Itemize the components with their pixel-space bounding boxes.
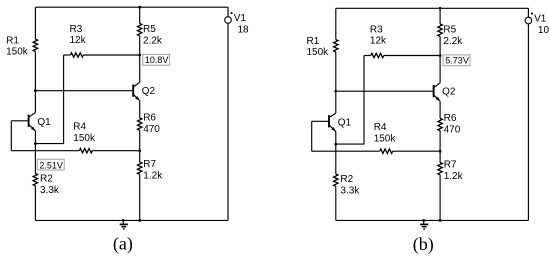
svg-text:Q1: Q1 — [37, 117, 51, 128]
wire: left rail upper (circuit a) — [34, 7, 36, 39]
resistor R2 3.3k (circuit b) — [334, 174, 361, 197]
svg-text:R7: R7 — [143, 159, 156, 170]
svg-text:Q2: Q2 — [142, 86, 156, 97]
node: ground junction (circuit b) — [422, 219, 425, 222]
resistor R4 150k (circuit a) — [11, 122, 139, 153]
svg-text:1.2k: 1.2k — [444, 171, 464, 182]
wire: emitter junction to R3 riser (circuit a) — [35, 55, 63, 144]
wire: top rail (circuit b) — [336, 7, 529, 9]
voltage source V1 (circuit a) — [225, 12, 249, 36]
svg-text:R5: R5 — [143, 24, 156, 35]
wire: R7 to bottom rail (circuit b) — [439, 175, 441, 221]
wire: base branch down to R4 (circuit b) — [311, 121, 313, 151]
svg-text:(a): (a) — [113, 234, 133, 255]
resistor R1 150k (circuit a) — [6, 35, 37, 57]
resistor R5 2.2k (circuit a) — [138, 24, 163, 47]
svg-text:Q1: Q1 — [338, 118, 352, 129]
wire: V1 positive lead (circuit b) — [527, 8, 529, 17]
wire: emitter junction to R2 (circuit b) — [335, 144, 337, 174]
ground symbol (circuit a) — [120, 220, 128, 229]
wire: V1 positive lead (circuit a) — [227, 7, 229, 17]
svg-text:R6: R6 — [143, 112, 156, 123]
wire: bottom rail (circuit b) — [336, 219, 529, 221]
node: R3 / R5 / Q2 collector net junction (circuit b) — [439, 54, 442, 57]
svg-text:2.2k: 2.2k — [143, 36, 163, 47]
wire: R7 to bottom rail (circuit a) — [139, 174, 141, 220]
svg-text:Q2: Q2 — [442, 86, 456, 97]
svg-text:R4: R4 — [374, 122, 387, 133]
wire: Q1 emitter down (circuit b) — [335, 131, 337, 144]
resistor R7 1.2k (circuit a) — [138, 159, 164, 181]
svg-text:150k: 150k — [374, 134, 397, 145]
node: ground junction (circuit a) — [122, 219, 125, 222]
wire: middle rail upper (circuit b) — [439, 8, 441, 24]
transistor Q1 (circuit a) — [29, 113, 52, 131]
svg-text:R4: R4 — [73, 122, 86, 133]
svg-text:V1: V1 — [534, 14, 547, 25]
resistor R3 12k (circuit b) — [364, 24, 440, 57]
wire: node to R7 (circuit a) — [139, 151, 141, 162]
svg-text:R5: R5 — [443, 25, 456, 36]
node: middle rail / bottom rail junction (circuit a) — [138, 219, 141, 222]
wire: R5 to Q2 collector (circuit a) — [139, 36, 141, 83]
svg-text:R2: R2 — [40, 174, 53, 185]
svg-text:R1: R1 — [307, 36, 320, 47]
wire: V1 negative lead / right side (circuit a) — [227, 23, 229, 220]
resistor R4 150k (circuit b) — [312, 122, 440, 153]
transistor Q1 (circuit b) — [329, 113, 352, 131]
svg-text:5.73V: 5.73V — [445, 55, 469, 65]
wire: middle rail upper (circuit a) — [139, 7, 141, 23]
svg-text:2.2k: 2.2k — [443, 36, 463, 47]
wire: node to R7 (circuit b) — [439, 151, 441, 162]
svg-text:R2: R2 — [340, 174, 353, 185]
svg-text:3.3k: 3.3k — [40, 185, 60, 196]
svg-text:12k: 12k — [70, 35, 87, 46]
wire: R1 to Q1 collector (circuit a) — [34, 51, 36, 112]
node: Q1 collector / Q2 base junction (circuit b) — [334, 90, 337, 93]
node: Q1 collector / Q2 base junction (circuit a) — [34, 89, 37, 92]
probe label 5.73V (circuit b) — [443, 55, 470, 66]
transistor Q2 (circuit b) — [434, 83, 456, 101]
node: R3 / R5 / Q2 collector net junction (circuit a) — [138, 54, 141, 57]
transistor Q2 (circuit a) — [133, 82, 155, 100]
wire: emitter junction to R3 riser (circuit b) — [336, 56, 364, 145]
wire: Q2 emitter to R6 (circuit a) — [139, 101, 141, 118]
node: R4 / R6 / R7 junction (circuit b) — [439, 150, 442, 153]
svg-text:3.3k: 3.3k — [340, 186, 360, 197]
svg-text:150k: 150k — [6, 47, 29, 58]
svg-text:10.8V: 10.8V — [145, 55, 169, 65]
voltage source V1 (circuit b) — [525, 13, 549, 37]
wire: R2 to bottom rail (circuit b) — [335, 186, 337, 220]
wire: Q1 emitter down (circuit a) — [34, 131, 36, 144]
resistor R2 3.3k (circuit a) — [33, 174, 60, 197]
svg-text:R3: R3 — [370, 24, 383, 35]
svg-text:10: 10 — [538, 25, 550, 36]
wire: Q2 base net (circuit a) — [35, 90, 133, 92]
wire: V1 negative lead / right side (circuit b) — [527, 24, 529, 221]
wire: bottom rail (circuit a) — [35, 219, 228, 221]
probe label 10.8V (circuit a) — [143, 54, 170, 65]
node: top rail / R5 junction (circuit b) — [439, 7, 442, 10]
wire: base branch down to R4 (circuit a) — [10, 121, 12, 151]
node: R4 / R6 / R7 junction (circuit a) — [138, 149, 141, 152]
svg-text:150k: 150k — [73, 133, 96, 144]
svg-text:150k: 150k — [307, 47, 330, 58]
wire: Q1 base lead (circuit a) — [11, 120, 28, 122]
wire: Q1 base lead (circuit b) — [312, 120, 329, 122]
svg-text:R6: R6 — [444, 113, 457, 124]
svg-text:R1: R1 — [6, 35, 19, 46]
svg-text:470: 470 — [143, 124, 160, 135]
resistor R7 1.2k (circuit b) — [438, 160, 464, 182]
svg-text:470: 470 — [444, 124, 461, 135]
svg-text:2.51V: 2.51V — [39, 160, 63, 170]
wire: R5 to Q2 collector (circuit b) — [439, 36, 441, 83]
ground symbol (circuit b) — [420, 220, 428, 229]
resistor R6 470 (circuit a) — [138, 112, 161, 134]
svg-text:1.2k: 1.2k — [143, 171, 163, 182]
node: top rail / R5 junction (circuit a) — [138, 6, 141, 9]
node: middle rail / bottom rail junction (circuit b) — [439, 219, 442, 222]
wire: R6 to R4/R7 node (circuit a) — [139, 130, 141, 151]
probe label 2.51V (circuit a) — [37, 159, 64, 170]
resistor R3 12k (circuit a) — [64, 24, 140, 57]
wire: top rail (circuit a) — [35, 6, 228, 8]
wire: left rail upper (circuit b) — [335, 8, 337, 39]
wire: R2 to bottom rail (circuit a) — [34, 186, 36, 221]
node: Q1 emitter / R3 / R2 junction (circuit b) — [334, 143, 337, 146]
svg-text:(b): (b) — [413, 234, 434, 255]
resistor R6 470 (circuit b) — [438, 113, 461, 135]
node: Q1 emitter / R3 / R2 junction (circuit a) — [34, 142, 37, 145]
wire: R1 to Q1 collector (circuit b) — [335, 52, 337, 113]
svg-text:V1: V1 — [234, 13, 247, 24]
svg-text:R3: R3 — [70, 24, 83, 35]
svg-text:18: 18 — [238, 25, 250, 36]
wire: Q2 base net (circuit b) — [336, 90, 434, 92]
wire: R6 to R4/R7 node (circuit b) — [439, 131, 441, 152]
resistor R5 2.2k (circuit b) — [438, 24, 463, 47]
svg-text:12k: 12k — [370, 36, 387, 47]
wire: emitter junction to R2 (circuit a) — [34, 144, 36, 174]
svg-text:R7: R7 — [444, 160, 457, 171]
resistor R1 150k (circuit b) — [307, 36, 339, 58]
wire: Q2 emitter to R6 (circuit b) — [439, 101, 441, 118]
